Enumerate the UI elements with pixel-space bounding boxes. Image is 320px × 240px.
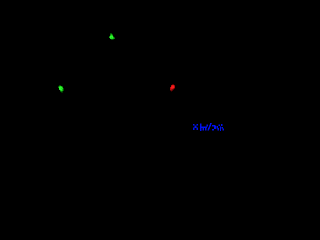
slash [207,123,212,130]
k-like glyph [220,126,221,130]
blue watermark text bottom-right [193,123,224,131]
y-like glyph [216,126,217,128]
green LED glow left [58,85,64,93]
2-like glyph [212,125,215,127]
green LED glow top-middle [109,33,115,40]
X glyph [193,124,195,126]
word glyphs [200,123,202,130]
red LED glow right [170,84,175,92]
